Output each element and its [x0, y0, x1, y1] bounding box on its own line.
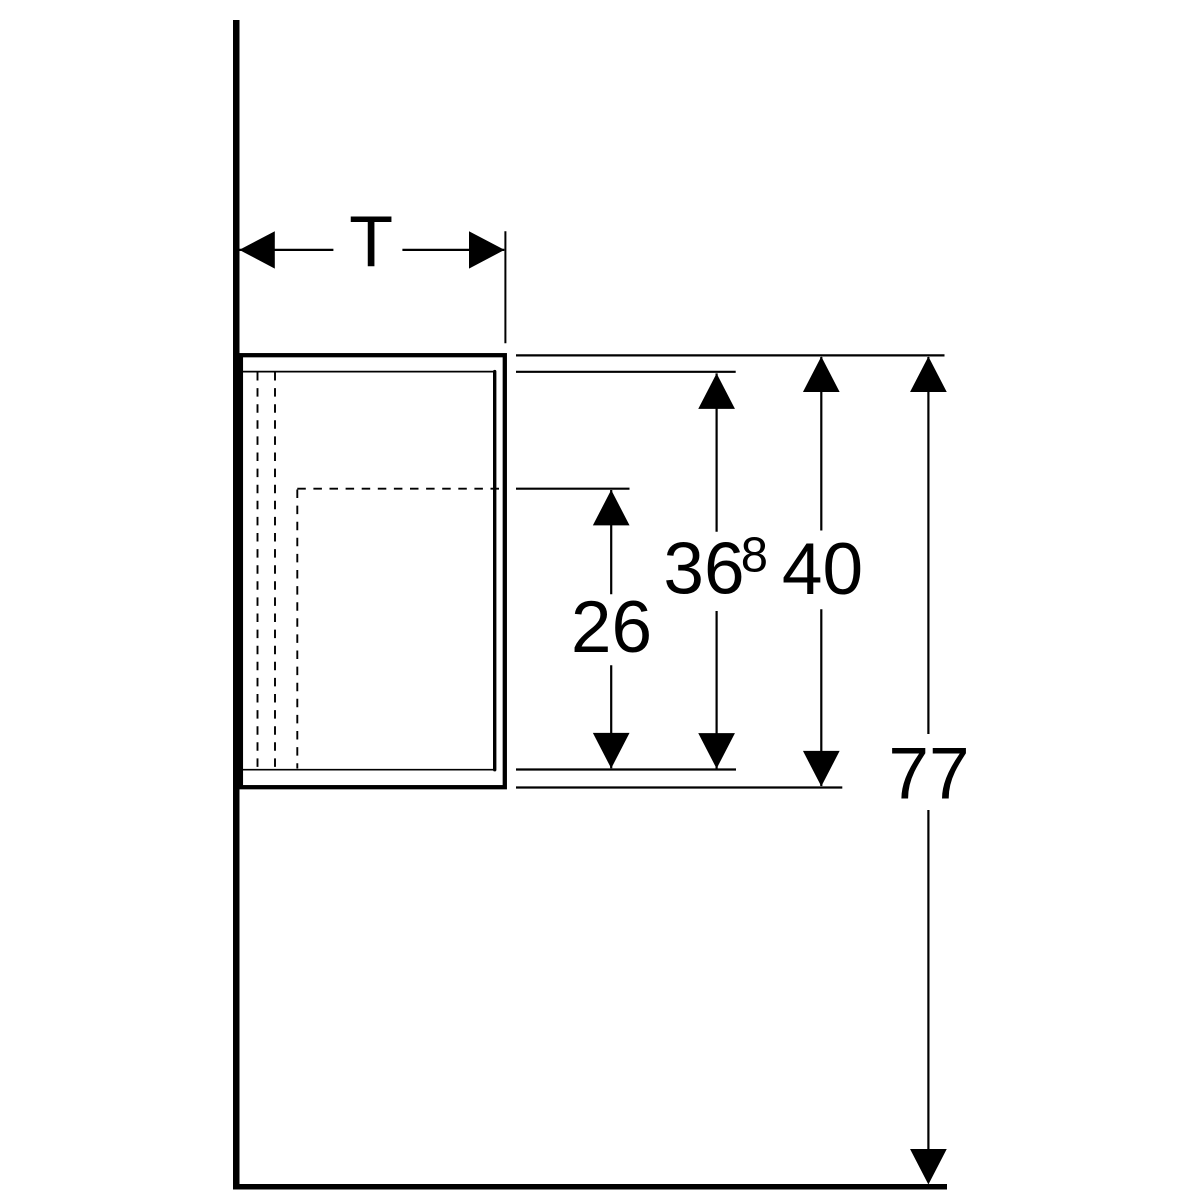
extension line C 26-top	[516, 488, 630, 490]
dimension 40 bottom arrowhead	[803, 751, 840, 787]
extension line B top inner	[516, 371, 736, 373]
extension line D bottom inner	[516, 768, 736, 770]
door front line	[493, 372, 496, 770]
svg-text:8: 8	[741, 528, 768, 582]
dimension 26 top arrowhead	[593, 490, 630, 526]
dashed line V2	[274, 372, 276, 769]
extension line for T	[504, 231, 506, 343]
svg-text:26: 26	[571, 587, 652, 668]
cabinet inner bottom line	[242, 769, 493, 771]
dimension 36-8 line	[715, 373, 717, 768]
cabinet inner top line	[242, 371, 493, 373]
extension line A top outer	[516, 354, 945, 356]
dimension 77 line	[927, 357, 929, 1153]
dimension 40 line	[820, 357, 822, 786]
dimension 26 bottom arrowhead	[593, 733, 630, 769]
dimension 77 bottom arrowhead	[910, 1149, 947, 1185]
dimension T line	[239, 249, 504, 251]
wall	[233, 20, 240, 1190]
dimension 40 top arrowhead	[803, 357, 840, 393]
floor	[233, 1184, 947, 1190]
svg-text:40: 40	[782, 529, 863, 610]
dashed line V1	[257, 372, 259, 769]
cabinet outer box	[241, 355, 505, 787]
dashed line V3	[296, 490, 298, 769]
dimension T right arrowhead	[469, 231, 505, 268]
svg-text:36: 36	[663, 529, 744, 610]
dimension T left arrowhead	[239, 231, 274, 268]
dimension 77 top arrowhead	[910, 357, 947, 393]
dimension 26 line	[610, 490, 612, 768]
svg-text:T: T	[349, 202, 393, 282]
svg-text:77: 77	[888, 734, 969, 815]
extension line E bottom outer	[516, 786, 842, 788]
dimension 36-8 bottom arrowhead	[698, 733, 735, 769]
dimension 36-8 top arrowhead	[698, 373, 735, 409]
dashed line H	[297, 488, 501, 490]
